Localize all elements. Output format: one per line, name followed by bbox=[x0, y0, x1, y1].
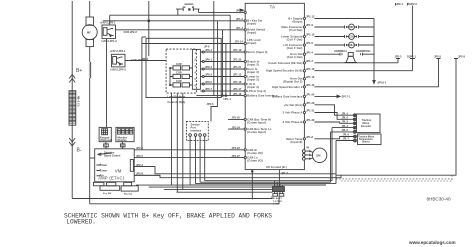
svg-text:COL: COL bbox=[349, 35, 355, 39]
svg-text:+5v Out (Enc): +5v Out (Enc) bbox=[284, 103, 303, 107]
svg-text:JP1-19: JP1-19 bbox=[306, 75, 315, 79]
svg-text:Temperature: Temperature bbox=[359, 138, 373, 141]
pin JP1-8 bbox=[303, 138, 305, 140]
wire bottom bus B- bbox=[72, 196, 272, 198]
svg-text:JPL-2: JPL-2 bbox=[342, 117, 349, 120]
svg-text:JP6-5: JP6-5 bbox=[205, 80, 212, 84]
wire JP6 row2 bbox=[200, 58, 244, 63]
wire encoder feed 5 bbox=[331, 132, 354, 182]
wire JP6 row1 bbox=[200, 48, 244, 53]
VM ETAC control box bbox=[95, 149, 135, 182]
wire DJP2-1 drop bbox=[315, 6, 413, 71]
load backrest dashed box bbox=[166, 49, 196, 93]
svg-text:HORNPOS1: HORNPOS1 bbox=[356, 49, 371, 53]
svg-text:UA6-2,JP1-3: UA6-2,JP1-3 bbox=[102, 39, 118, 43]
motor MF brush bottom bbox=[86, 40, 94, 47]
svg-text:SPL6-1: SPL6-1 bbox=[378, 80, 387, 84]
wire motor line down bbox=[89, 78, 91, 204]
svg-text:JP2-5: JP2-5 bbox=[136, 154, 143, 158]
switch S2 bbox=[170, 70, 193, 78]
svg-text:JP6-2: JP6-2 bbox=[205, 73, 212, 77]
pin JP1-13 bbox=[303, 17, 305, 19]
pin JP1-26 bbox=[303, 104, 305, 106]
svg-text:(Coil F Out): (Coil F Out) bbox=[287, 46, 303, 50]
keypad grid icon bbox=[102, 129, 108, 135]
node SPL6-1 arrow bbox=[373, 80, 387, 84]
wire component right stem bbox=[199, 9, 245, 12]
svg-text:MF: MF bbox=[87, 30, 91, 34]
wire encoder feed 2 bbox=[315, 113, 354, 120]
svg-text:JP1-2: JP1-2 bbox=[236, 17, 243, 21]
wire bus A3 bbox=[196, 183, 337, 185]
svg-text:(Coil Out): (Coil Out) bbox=[289, 28, 302, 32]
wire switch bus left bbox=[169, 68, 171, 85]
svg-text:JP6-1: JP6-1 bbox=[205, 58, 212, 62]
pin JP1-11 bbox=[303, 62, 305, 64]
svg-text:JP1-25: JP1-25 bbox=[232, 116, 241, 120]
wire JP2-5 drop bbox=[315, 59, 439, 87]
wire row y43.5 bbox=[142, 43, 244, 45]
pin JP1-31 bbox=[303, 111, 305, 113]
svg-text:(Digital Out 3): (Digital Out 3) bbox=[283, 80, 302, 84]
wire B- rail lower bbox=[71, 125, 73, 198]
svg-text:JP1-16: JP1-16 bbox=[233, 80, 242, 84]
traction motor temp sensor box bbox=[358, 134, 382, 145]
wire ground row y95.6 bbox=[196, 95, 244, 97]
svg-text:LOWERED.: LOWERED. bbox=[66, 219, 96, 226]
wire bus dashed right b bbox=[341, 180, 452, 182]
monitor icons bbox=[117, 129, 132, 134]
svg-text:(Comm Input): (Comm Input) bbox=[247, 120, 266, 124]
wire vertical x213.8 bbox=[213, 1, 215, 96]
switch S1 bbox=[170, 62, 193, 70]
svg-text:JPL-1: JPL-1 bbox=[342, 112, 349, 115]
wire SPL7-1 row bbox=[315, 95, 351, 99]
wire component left stem bbox=[177, 9, 179, 15]
svg-text:JP6-6: JP6-6 bbox=[207, 102, 214, 106]
svg-text:2 Volt Phase A: 2 Volt Phase A bbox=[283, 111, 303, 115]
pin JP1-32 bbox=[303, 121, 305, 123]
wire CAN term hi stub bbox=[228, 118, 244, 120]
wire encoder feed 4 bbox=[332, 128, 353, 181]
svg-text:DM: DM bbox=[316, 154, 320, 158]
keypad box bbox=[99, 127, 111, 141]
pin JP1-9 bbox=[303, 26, 305, 28]
TA interior left text bbox=[247, 19, 287, 169]
svg-text:Sensor: Sensor bbox=[362, 142, 370, 144]
svg-text:JPL-6: JPL-6 bbox=[343, 134, 350, 137]
switch S3 bbox=[170, 79, 193, 87]
svg-text:DJP2-2: DJP2-2 bbox=[408, 2, 417, 6]
svg-text:CUR: CUR bbox=[176, 79, 182, 83]
pin JP1-1 bbox=[244, 11, 246, 13]
svg-text:Traction Motor: Traction Motor bbox=[358, 135, 374, 138]
svg-text:(Input 3): (Input 3) bbox=[247, 77, 259, 81]
gauge MU bbox=[315, 42, 375, 48]
TA interior right text bbox=[266, 17, 303, 144]
svg-text:JP1-1: JP1-1 bbox=[236, 9, 243, 13]
wire vertical x217.5 bbox=[217, 21, 219, 96]
horn speaker bbox=[345, 53, 358, 63]
wire B+ rail upper bbox=[71, 1, 73, 91]
wire horiz y20.8 bbox=[103, 20, 244, 22]
wire Q2 out bbox=[125, 60, 166, 62]
wire service drop2 bbox=[195, 136, 197, 183]
svg-text:JP1-15: JP1-15 bbox=[233, 73, 242, 77]
connector strip JP6 bbox=[192, 49, 200, 89]
pin JP1-27 bbox=[244, 157, 246, 159]
svg-text:JP2-4: JP2-4 bbox=[396, 2, 403, 6]
svg-text:JP2-9: JP2-9 bbox=[458, 54, 465, 58]
svg-text:JP2-5: JP2-5 bbox=[434, 54, 441, 58]
TA left pin labels lower bbox=[232, 116, 241, 158]
wire bottom bus motor bbox=[90, 196, 279, 203]
drive motor DM bbox=[312, 148, 326, 162]
svg-text:CUR: CUR bbox=[176, 70, 182, 74]
svg-text:JP1-40: JP1-40 bbox=[306, 83, 315, 87]
svg-text:+24V-2,JP4-1: +24V-2,JP4-1 bbox=[110, 49, 126, 53]
wire Q1 out row bbox=[116, 29, 245, 31]
controller TA box bbox=[245, 3, 304, 169]
ETAC direction arrow bbox=[98, 153, 113, 156]
svg-text:JP1-4: JP1-4 bbox=[306, 50, 313, 54]
pin JP1-16 bbox=[244, 83, 246, 85]
pin JP1-5 bbox=[303, 44, 305, 46]
wire temp feed 1 bbox=[315, 137, 354, 139]
svg-text:JP2-3: JP2-3 bbox=[136, 163, 143, 167]
enclosure box load backrest bbox=[146, 38, 221, 97]
wire vertical x148.8 bbox=[148, 1, 150, 56]
svg-text:JP-6: JP-6 bbox=[204, 44, 210, 48]
label connector bbox=[273, 198, 283, 205]
svg-text:LPS In (Inp 3): LPS In (Inp 3) bbox=[247, 89, 266, 93]
svg-text:B- B+ T1: B- B+ T1 bbox=[273, 198, 283, 200]
wire encoder feed 3 bbox=[315, 122, 354, 123]
svg-text:UPL-1: UPL-1 bbox=[224, 97, 232, 101]
pin JP1-20 bbox=[244, 60, 246, 62]
ETAC right wire JP2-8 bbox=[134, 172, 160, 176]
ETAC lower connector row2 bbox=[100, 186, 138, 191]
wire temp feed 2 bbox=[336, 141, 354, 184]
svg-text:JP1-26: JP1-26 bbox=[306, 101, 315, 105]
wire bus A1 bbox=[205, 180, 332, 182]
svg-text:8HBC30-40: 8HBC30-40 bbox=[427, 197, 451, 202]
svg-text:CUR: CUR bbox=[176, 62, 182, 66]
svg-text:W: W bbox=[307, 145, 310, 149]
svg-text:Display: Display bbox=[118, 138, 128, 142]
ETAC right wire JP2-3 bbox=[134, 163, 155, 167]
resistor shunt coil bbox=[69, 91, 81, 126]
wire JP6 row6 bbox=[200, 87, 244, 92]
svg-text:JPL-5: JPL-5 bbox=[342, 129, 349, 132]
svg-text:4B+1 CA: 4B+1 CA bbox=[77, 96, 81, 107]
svg-text:High Speed Encoder (In B): High Speed Encoder (In B) bbox=[266, 69, 302, 73]
svg-text:Battery Gate Interface: Battery Gate Interface bbox=[272, 94, 303, 98]
svg-text:(Comm Input): (Comm Input) bbox=[247, 130, 266, 134]
label JP2-4 DJP2-2 top bbox=[396, 2, 417, 6]
svg-text:Interface: Interface bbox=[191, 129, 202, 133]
pin JP2-3 riser bbox=[397, 59, 399, 63]
monitor stub connector bbox=[120, 142, 125, 149]
wire JP6 row4 bbox=[200, 73, 244, 78]
wire sub-TA row1 bbox=[134, 167, 336, 174]
wire motor to inductor bbox=[89, 47, 91, 62]
svg-text:JP1-2: JP1-2 bbox=[306, 59, 313, 63]
svg-text:(Input B): (Input B) bbox=[290, 140, 302, 144]
svg-text:Speed Control: Speed Control bbox=[104, 154, 121, 157]
svg-text:JP6-3: JP6-3 bbox=[205, 65, 212, 69]
keypad stub connector bbox=[104, 142, 109, 149]
pin horn bbox=[303, 53, 305, 55]
svg-text:JP1-5: JP1-5 bbox=[306, 41, 313, 45]
pin JP1-18 bbox=[244, 95, 246, 97]
wire vertical x230.2 bbox=[229, 15, 231, 95]
TA left pin labels upper bbox=[235, 9, 244, 44]
wire service drop1 bbox=[189, 136, 191, 185]
svg-text:JP6-7: JP6-7 bbox=[205, 87, 212, 91]
svg-text:(Coil F Out): (Coil F Out) bbox=[287, 38, 303, 42]
wire JP6-6 stub bbox=[207, 96, 218, 122]
wire LB drop3 bbox=[182, 93, 184, 190]
svg-text:Key SW: Key SW bbox=[103, 193, 112, 195]
wire bus B1 bbox=[136, 184, 273, 186]
svg-text:JP1-34: JP1-34 bbox=[232, 125, 241, 129]
node dot sw1 bbox=[169, 67, 171, 69]
pin JP1-25 bbox=[244, 118, 246, 120]
svg-text:JP1-10: JP1-10 bbox=[306, 67, 315, 71]
node dot UPL-1 b bbox=[225, 95, 227, 97]
wire gauge rail bbox=[373, 19, 375, 81]
gauge MD bbox=[315, 24, 375, 30]
svg-text:B+: B+ bbox=[76, 68, 82, 74]
horn wire bbox=[315, 53, 375, 56]
gauge row1 wire bbox=[315, 18, 375, 20]
wire JP6 row3 bbox=[200, 65, 244, 70]
wire Q1 bottom drop bbox=[106, 39, 108, 128]
fuse element M bbox=[176, 4, 200, 11]
ETAC internal strip bbox=[130, 160, 133, 172]
wire JP2-9 drop bbox=[336, 59, 456, 176]
svg-text:JPL-7: JPL-7 bbox=[343, 138, 350, 141]
inductor field coil bbox=[90, 62, 91, 78]
svg-text:JP1-10: JP1-10 bbox=[306, 33, 315, 37]
wire horn common end bbox=[401, 62, 403, 64]
wire sub-TA row2 bbox=[134, 175, 341, 178]
svg-text:(Input 3): (Input 3) bbox=[247, 62, 259, 66]
pin JP1-23 bbox=[244, 149, 246, 151]
pin JP1-30 bbox=[303, 70, 305, 72]
power connector block bbox=[273, 181, 285, 197]
pin JP1-15 bbox=[244, 75, 246, 77]
svg-text:JPL-3: JPL-3 bbox=[342, 121, 349, 124]
svg-text:JP1-32: JP1-32 bbox=[306, 118, 315, 122]
pin ticks top labels bbox=[396, 3, 459, 59]
pin JP1-24 bbox=[303, 86, 305, 88]
wire bus A2 bbox=[200, 181, 330, 183]
wire ETAC left stub bbox=[90, 157, 95, 159]
svg-text:Brg Opt: Brg Opt bbox=[124, 192, 132, 195]
pin JP1-2 bbox=[244, 20, 246, 22]
svg-text:JP1-8: JP1-8 bbox=[306, 135, 313, 139]
svg-text:I/O Ground (B-): I/O Ground (B-) bbox=[266, 165, 287, 169]
wire service drop3 bbox=[199, 136, 201, 182]
wire Q1 top feed bbox=[109, 15, 111, 25]
node B- chevron bbox=[69, 138, 75, 146]
svg-text:2 Volt Phase B: 2 Volt Phase B bbox=[283, 120, 303, 124]
wire bus B3 bbox=[164, 189, 273, 191]
pin JP1-3 bbox=[244, 29, 246, 31]
svg-text:(Coil 3 Out): (Coil 3 Out) bbox=[287, 55, 303, 59]
svg-text:CUR,JP2-2: CUR,JP2-2 bbox=[124, 30, 138, 34]
node TA ground dot bbox=[251, 170, 253, 172]
svg-text:B-: B- bbox=[77, 148, 82, 154]
TA left pins bbox=[244, 11, 246, 158]
service interface dashed box bbox=[186, 121, 208, 140]
ETAC right wire JP2-4 bbox=[134, 146, 244, 150]
svg-text:JP1-31: JP1-31 bbox=[306, 109, 315, 113]
pin JP1-34 bbox=[244, 128, 246, 130]
svg-text:JP1-24: JP1-24 bbox=[306, 93, 315, 97]
svg-text:JP1-20: JP1-20 bbox=[233, 58, 242, 62]
wire enclosure feed bbox=[142, 36, 146, 38]
svg-text:JP1-19: JP1-19 bbox=[233, 48, 242, 52]
node B+ feed arrow at TA bbox=[240, 9, 244, 11]
svg-text:SPL7-1: SPL7-1 bbox=[342, 95, 351, 99]
wire bus A4 bbox=[190, 184, 326, 186]
wire TA ground drop left bbox=[251, 170, 253, 200]
svg-text:VM: VM bbox=[115, 169, 122, 174]
svg-text:(Input): (Input) bbox=[247, 41, 256, 45]
svg-text:MU: MU bbox=[349, 43, 353, 47]
svg-text:JP6-4: JP6-4 bbox=[205, 48, 212, 52]
connector pins service box bbox=[189, 134, 206, 137]
svg-text:JP1-18: JP1-18 bbox=[233, 92, 242, 96]
wire vertical x141.9 bbox=[141, 37, 143, 150]
pin JP1-10 bbox=[303, 35, 305, 37]
wire vertical x225.9 bbox=[225, 44, 227, 96]
wire JP1-7 drop bbox=[278, 170, 280, 187]
svg-text:TA: TA bbox=[270, 5, 276, 10]
wire JP6 row5 bbox=[200, 80, 244, 85]
pin JP1-21 bbox=[244, 68, 246, 70]
svg-text:Encoder: Encoder bbox=[361, 125, 371, 128]
svg-text:JP2-3: JP2-3 bbox=[395, 54, 402, 58]
motor MF brush top bbox=[86, 17, 94, 25]
wire LB drop2 bbox=[176, 93, 178, 192]
svg-text:MD: MD bbox=[349, 25, 353, 29]
motor MF vertical feed bbox=[89, 1, 91, 17]
wire bus B2 bbox=[149, 186, 273, 188]
motor MF body bbox=[82, 25, 97, 40]
gauge COL bbox=[315, 34, 375, 40]
wire CAN term lo stub bbox=[228, 128, 244, 130]
wire encoder feed 1 bbox=[315, 105, 354, 115]
wire LB drop1 bbox=[171, 93, 173, 185]
svg-text:(Input 3): (Input 3) bbox=[247, 85, 259, 89]
wire horiz y15.2 bbox=[110, 14, 231, 16]
wire bus B4 bbox=[177, 191, 273, 193]
node dot UPL-1 a bbox=[221, 95, 223, 97]
svg-text:(Input): (Input) bbox=[247, 31, 256, 35]
svg-text:High Speed Encoder 2: High Speed Encoder 2 bbox=[272, 85, 303, 89]
node junction dot bbox=[148, 20, 150, 22]
svg-text:(Optional): (Optional) bbox=[100, 138, 112, 142]
traction motor encoder box bbox=[357, 114, 381, 133]
wire bus dashed right a bbox=[336, 178, 452, 180]
node B+ chevron bbox=[69, 75, 75, 83]
svg-text:JPL-4: JPL-4 bbox=[342, 125, 349, 128]
wire bus dashed right c bbox=[451, 175, 453, 181]
svg-text:(Comm I/O): (Comm I/O) bbox=[247, 159, 262, 163]
svg-text:Sel In (Input 3): Sel In (Input 3) bbox=[247, 50, 267, 54]
svg-text:F 1N2: F 1N2 bbox=[273, 203, 280, 205]
drive motor DM pins bbox=[302, 145, 312, 160]
encoder pin connectors bbox=[353, 114, 356, 142]
svg-text:UA6-2,JP4-3: UA6-2,JP4-3 bbox=[111, 67, 127, 71]
TA right pins bbox=[303, 17, 305, 139]
svg-text:www.epcatalogs.com: www.epcatalogs.com bbox=[408, 240, 456, 245]
svg-text:JP2-8: JP2-8 bbox=[136, 172, 143, 176]
svg-text:JP1-21: JP1-21 bbox=[233, 65, 242, 69]
ETAC lower labels bbox=[103, 192, 132, 195]
pin JP1-29 bbox=[303, 78, 305, 80]
contactor driver Q1 bbox=[102, 25, 116, 39]
svg-text:Coach Solenoid (FB Out): Coach Solenoid (FB Out) bbox=[268, 61, 302, 65]
svg-text:JP1-9: JP1-9 bbox=[306, 23, 313, 27]
svg-text:(Input): (Input) bbox=[247, 22, 256, 26]
monitor display box bbox=[116, 127, 134, 141]
pin JP1-14 bbox=[244, 42, 246, 44]
label JP2-3 DJP2-1 bbox=[395, 54, 417, 58]
encoder pin labels bbox=[342, 112, 350, 140]
svg-text:JP1-14: JP1-14 bbox=[235, 40, 244, 44]
svg-text:JP1-3: JP1-3 bbox=[236, 26, 243, 30]
pin JP1-19 bbox=[244, 51, 246, 53]
contactor driver Q2 bbox=[112, 54, 126, 67]
pin JP1-28 bbox=[303, 95, 305, 97]
wire horn common y62.8 bbox=[315, 62, 399, 64]
svg-text:(Comm I/O): (Comm I/O) bbox=[247, 151, 262, 155]
svg-text:+Output: +Output bbox=[291, 20, 302, 24]
svg-text:HORNEG1: HORNEG1 bbox=[334, 49, 347, 53]
ETAC lower connector row1 bbox=[93, 182, 131, 185]
svg-text:DJP2-1: DJP2-1 bbox=[407, 54, 416, 58]
ETAC right wire JP2-5 bbox=[134, 154, 244, 158]
node dot sw3 bbox=[169, 84, 171, 86]
wire service drop4 bbox=[204, 136, 206, 180]
svg-text:(Input 3): (Input 3) bbox=[247, 70, 259, 74]
svg-text:JP1-17: JP1-17 bbox=[233, 87, 242, 91]
pin JP1-17 bbox=[244, 90, 246, 92]
svg-text:AMP (ETAC): AMP (ETAC) bbox=[98, 176, 125, 181]
TA right pin labels bbox=[306, 15, 315, 139]
svg-text:JP2-4: JP2-4 bbox=[136, 146, 143, 150]
ETAC small arrows bbox=[97, 164, 102, 176]
svg-text:JP1-13: JP1-13 bbox=[306, 15, 315, 19]
wire vertical x222.5 bbox=[222, 30, 224, 96]
